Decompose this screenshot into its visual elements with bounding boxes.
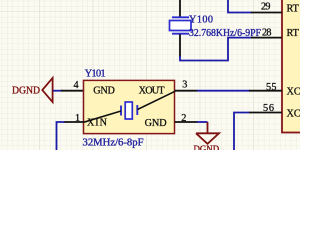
line XIN to crystal [84, 111, 122, 122]
svg-text:2: 2 [181, 113, 186, 124]
line crystal to XOUT [138, 91, 176, 109]
IC U100 body (right edge, clipped) [282, 0, 312, 133]
svg-text:3: 3 [182, 79, 187, 90]
svg-text:DGND: DGND [12, 85, 40, 96]
svg-text:Y101: Y101 [85, 69, 106, 80]
power port DGND (bottom) [194, 122, 220, 156]
wire net RTC XTAL in (top, to pin 29) [228, 0, 252, 13]
pin 4 of Y101 [61, 90, 84, 92]
crystal Y100 [170, 17, 192, 33]
wire pin2 to DGND [197, 121, 208, 123]
crystal Y100 bottom pin [179, 34, 181, 57]
pin 56 [249, 112, 282, 114]
svg-text:1: 1 [75, 113, 80, 124]
pin 29 [251, 12, 282, 14]
pin 1 of Y101 [64, 121, 84, 123]
svg-text:4: 4 [74, 80, 79, 91]
wire pin1 down to sheet edge [57, 122, 65, 150]
svg-text:56: 56 [263, 103, 274, 114]
pin 2 of Y101 [175, 121, 198, 123]
wire from DGND to pin 4 [53, 90, 62, 92]
svg-text:XIN: XIN [87, 118, 108, 129]
svg-text:RT: RT [287, 4, 300, 15]
crystal symbol inside Y101 [121, 102, 137, 119]
power port DGND (left) [12, 78, 53, 102]
wire net to pin 28 (routed under comment) [180, 38, 252, 61]
wire pin3 to pin55 [197, 90, 250, 92]
crystal Y100 top pin [179, 0, 181, 17]
pin 28 [251, 37, 282, 39]
svg-text:32MHz/6-8pF: 32MHz/6-8pF [83, 138, 144, 149]
svg-text:XC: XC [287, 108, 301, 119]
wire net pin 56 down to sheet edge [234, 113, 250, 151]
svg-text:29: 29 [261, 2, 271, 13]
svg-text:GND: GND [93, 86, 115, 97]
svg-text:XC: XC [287, 86, 301, 97]
pin 3 of Y101 [175, 90, 198, 92]
svg-text:XOUT: XOUT [139, 86, 166, 97]
svg-text:DGND: DGND [194, 145, 220, 150]
pin 55 [249, 90, 282, 92]
svg-text:RT: RT [287, 28, 300, 39]
svg-text:28: 28 [262, 27, 272, 38]
component Y101 body [84, 80, 175, 133]
sheet background [0, 0, 300, 150]
svg-text:Y100: Y100 [189, 15, 213, 26]
svg-text:55: 55 [266, 82, 277, 93]
svg-text:GND: GND [145, 118, 167, 129]
